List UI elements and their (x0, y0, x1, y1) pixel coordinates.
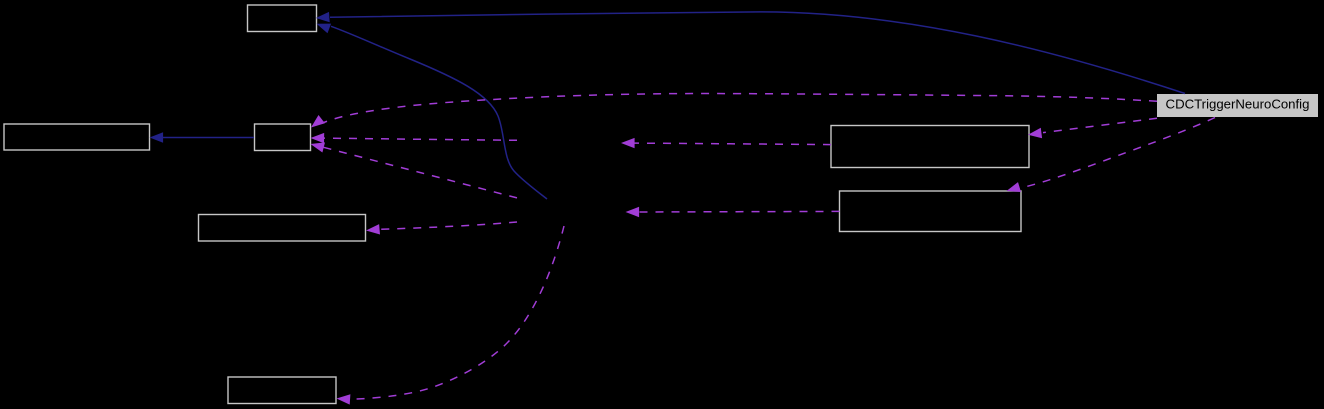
edge purple dashed hubB to string (diagonal) (311, 142, 518, 198)
node string (small empty box) (255, 124, 311, 151)
node vector-float (bottom empty box) (228, 377, 336, 404)
edge purple dashed B2FormatLine to hubB (626, 207, 840, 217)
node CDCTriggerNeuroConfig (main filled node) (1157, 94, 1318, 117)
edge purple dashed CDCTriggerNeuroConfig to vector-B2FormatLine (1028, 118, 1157, 138)
edge blue inheritance CDCTriggerNeuroConfig to TObject (long top curve) (316, 12, 1185, 94)
node vector-ushort (left lower empty box) (199, 215, 366, 242)
svg-text:CDCTriggerNeuroConfig: CDCTriggerNeuroConfig (1166, 97, 1310, 112)
edge purple dashed hubB to vector-float (big arc) (337, 226, 565, 405)
edge purple dashed hubB to vector-ushort (366, 222, 517, 235)
node TObject (top empty box) (248, 5, 317, 32)
node vector-B2FormatLine (right upper two-line box) (831, 126, 1029, 168)
edge purple dashed CDCTriggerNeuroConfig to B2FormatLine (1007, 118, 1216, 193)
edge blue inheritance string to basic_string (150, 132, 255, 142)
edge purple dashed vector-B2FormatLine to hubA (621, 138, 831, 148)
edge purple dashed CDCTriggerNeuroConfig to string (long top dashed curve) (311, 94, 1157, 128)
edge purple dashed hubA to string (horizontal mid) (311, 133, 518, 143)
edge blue inheritance hub to TObject (S curve) (317, 24, 548, 199)
node B2FormatLine (right lower two-line box) (840, 191, 1022, 232)
node basic_string (left empty box) (4, 124, 150, 150)
